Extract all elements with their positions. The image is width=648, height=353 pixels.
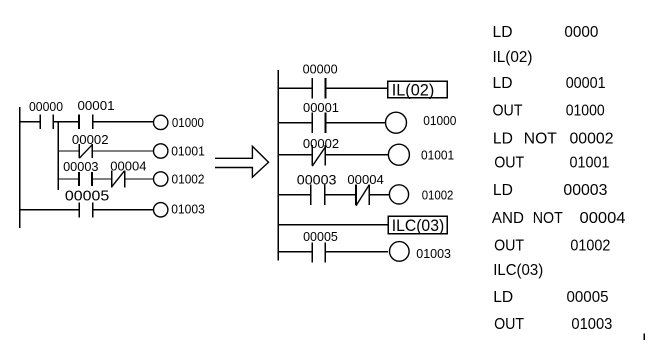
wire: left rung3 feeder to contact xyxy=(58,178,79,180)
label 00003 (middle) xyxy=(297,173,337,188)
svg-text:00002: 00002 xyxy=(72,133,109,147)
listing line 7: LD 00003 xyxy=(493,182,608,199)
svg-text:AND: AND xyxy=(492,210,524,227)
label 01000 (left) xyxy=(172,116,204,130)
svg-text:01000: 01000 xyxy=(172,116,204,130)
wire: mid rung1 bus to contact xyxy=(278,87,312,89)
svg-text:0000: 0000 xyxy=(564,24,598,41)
wire: mid rung6 to coil xyxy=(325,251,388,253)
label 01002 (left) xyxy=(172,173,205,187)
coil 01001 (left) xyxy=(154,144,168,158)
listing line 11: LD 00005 xyxy=(493,289,608,306)
wire: left rung1 bus to contact 00000 xyxy=(20,121,41,123)
svg-text:LD: LD xyxy=(493,24,513,41)
listing line 1: LD 0000 xyxy=(493,24,599,41)
contact 00000 (middle) xyxy=(312,78,325,98)
wire: mid rung5 bus to ILC box xyxy=(278,224,388,226)
label 00000 (middle) xyxy=(303,62,338,76)
label 01001 (left) xyxy=(171,144,205,158)
wire: mid rung2 bus to contact xyxy=(278,122,312,124)
svg-text:ILC(03): ILC(03) xyxy=(392,216,445,235)
coil 01003 (middle) xyxy=(390,242,410,262)
left bus bar xyxy=(19,107,21,228)
listing line 3: LD 00001 xyxy=(493,75,606,92)
contact 00002 NC (middle) xyxy=(312,145,325,166)
ILC(03) box xyxy=(388,216,447,233)
contact 00005 (left) xyxy=(79,202,92,217)
label 00001 (left) xyxy=(78,99,115,113)
svg-text:01003: 01003 xyxy=(416,246,451,261)
listing line 10: ILC(03) xyxy=(493,262,543,279)
wire: mid rung4 to coil xyxy=(369,194,389,196)
svg-text:00004: 00004 xyxy=(110,160,146,174)
contact 00000 (left) xyxy=(40,115,53,129)
svg-text:01002: 01002 xyxy=(422,188,454,203)
svg-text:00002: 00002 xyxy=(303,137,339,151)
wire: mid rung3 bus to contact xyxy=(278,154,312,156)
svg-text:01002: 01002 xyxy=(570,238,610,255)
wire: left rung3 to coil xyxy=(125,178,154,180)
label 00001 (middle) xyxy=(303,101,339,115)
label 00002 (middle) xyxy=(303,137,339,151)
label 01000 (middle) xyxy=(423,113,456,128)
svg-text:IL(02): IL(02) xyxy=(493,49,533,66)
svg-text:00005: 00005 xyxy=(303,230,338,244)
svg-text:00005: 00005 xyxy=(567,289,609,306)
svg-text:NOT: NOT xyxy=(524,130,557,147)
block arrow xyxy=(215,146,269,177)
label 01003 (middle) xyxy=(416,246,451,261)
contact 00003 (left) xyxy=(79,172,92,186)
svg-text:01003: 01003 xyxy=(571,316,612,333)
svg-text:OUT: OUT xyxy=(494,316,524,333)
listing line 5: LD NOT 00002 xyxy=(493,130,614,147)
label 01003 (left) xyxy=(171,203,205,217)
svg-text:00003: 00003 xyxy=(297,173,337,188)
svg-text:00004: 00004 xyxy=(347,173,383,187)
label 00005 (left) xyxy=(65,188,109,205)
svg-text:NOT: NOT xyxy=(533,210,563,227)
svg-text:01001: 01001 xyxy=(171,144,205,158)
IL(02) box text xyxy=(392,81,435,100)
label 00004 (middle) xyxy=(347,173,383,187)
IL(02) box xyxy=(388,81,447,97)
contact 00004 NC (left) xyxy=(112,171,125,188)
svg-text:00002: 00002 xyxy=(570,130,614,147)
ILC(03) box text xyxy=(392,216,445,235)
wire: mid rung6 bus to contact xyxy=(278,251,312,253)
svg-text:LD: LD xyxy=(493,75,513,92)
listing line 9: OUT 01002 xyxy=(494,238,610,255)
wire: mid rung2 to coil xyxy=(326,122,386,124)
svg-text:01001: 01001 xyxy=(421,147,454,162)
svg-text:00001: 00001 xyxy=(566,75,606,92)
wire: mid rung4 bus to contact xyxy=(278,194,311,196)
wire: left rung1 between contacts with feeder junction xyxy=(53,121,79,123)
coil 01000 (middle) xyxy=(386,112,407,133)
wire: mid rung3 to coil xyxy=(325,154,388,156)
contact 00001 (left) xyxy=(79,115,93,129)
label 00002 (left) xyxy=(72,133,109,147)
wire: mid rung1 to IL box xyxy=(326,87,388,89)
svg-text:01001: 01001 xyxy=(570,155,610,172)
svg-text:LD: LD xyxy=(493,182,513,199)
wire: left rung3 between contacts xyxy=(92,178,112,180)
svg-text:00003: 00003 xyxy=(63,160,98,174)
coil 01001 (middle) xyxy=(388,144,409,165)
wire: left rung4 bus to contact xyxy=(20,209,80,211)
label 00005 (middle) xyxy=(303,230,338,244)
label 00000 (left) xyxy=(29,100,63,114)
coil 01003 (left) xyxy=(154,203,168,217)
svg-text:OUT: OUT xyxy=(494,238,524,255)
svg-text:00004: 00004 xyxy=(580,210,626,227)
svg-text:LD: LD xyxy=(493,289,513,306)
svg-text:IL(02): IL(02) xyxy=(392,81,435,100)
contact 00004 NC (middle) xyxy=(356,184,369,205)
svg-text:01000: 01000 xyxy=(423,113,456,128)
wire: left rung1 to coil xyxy=(93,121,154,123)
contact 00001 (middle) xyxy=(312,113,325,133)
svg-text:00001: 00001 xyxy=(78,99,115,113)
label 01002 (middle) xyxy=(422,188,454,203)
middle bus bar xyxy=(277,70,279,260)
listing line 2: IL(02) xyxy=(493,49,533,66)
svg-text:01000: 01000 xyxy=(566,102,605,119)
listing line 4: OUT 01000 xyxy=(493,102,605,119)
contact 00002 NC (left) xyxy=(79,144,92,158)
svg-text:OUT: OUT xyxy=(493,102,523,119)
svg-text:00003: 00003 xyxy=(563,182,607,199)
svg-text:00001: 00001 xyxy=(303,101,339,115)
svg-text:ILC(03): ILC(03) xyxy=(493,262,543,279)
wire: left rung2 feeder to contact xyxy=(58,150,79,152)
listing line 8: AND NOT 00004 xyxy=(492,210,626,227)
coil 01000 (left) xyxy=(154,115,168,129)
feeder wire (vertical branch) xyxy=(57,122,59,190)
coil 01002 (left) xyxy=(154,172,168,186)
svg-text:00005: 00005 xyxy=(65,188,109,205)
svg-text:01002: 01002 xyxy=(172,173,205,187)
svg-text:00000: 00000 xyxy=(303,62,338,76)
label 00004 (left) xyxy=(110,160,146,174)
contact 00003 (middle) xyxy=(311,184,325,204)
listing line 6: OUT 01001 xyxy=(494,155,609,172)
cursor tick mark xyxy=(643,334,645,341)
wire: mid rung4 between contacts xyxy=(325,194,356,196)
svg-text:LD: LD xyxy=(493,130,513,147)
label 00003 (left) xyxy=(63,160,98,174)
coil 01002 (middle) xyxy=(389,185,408,204)
wire: left rung2 to coil xyxy=(92,150,153,152)
svg-text:01003: 01003 xyxy=(171,203,205,217)
label 01001 (middle) xyxy=(421,147,454,162)
wire: left rung4 to coil xyxy=(93,209,154,211)
svg-text:OUT: OUT xyxy=(494,155,524,172)
svg-text:00000: 00000 xyxy=(29,100,63,114)
contact 00005 (middle) xyxy=(312,243,325,263)
listing line 12: OUT 01003 xyxy=(494,316,612,333)
